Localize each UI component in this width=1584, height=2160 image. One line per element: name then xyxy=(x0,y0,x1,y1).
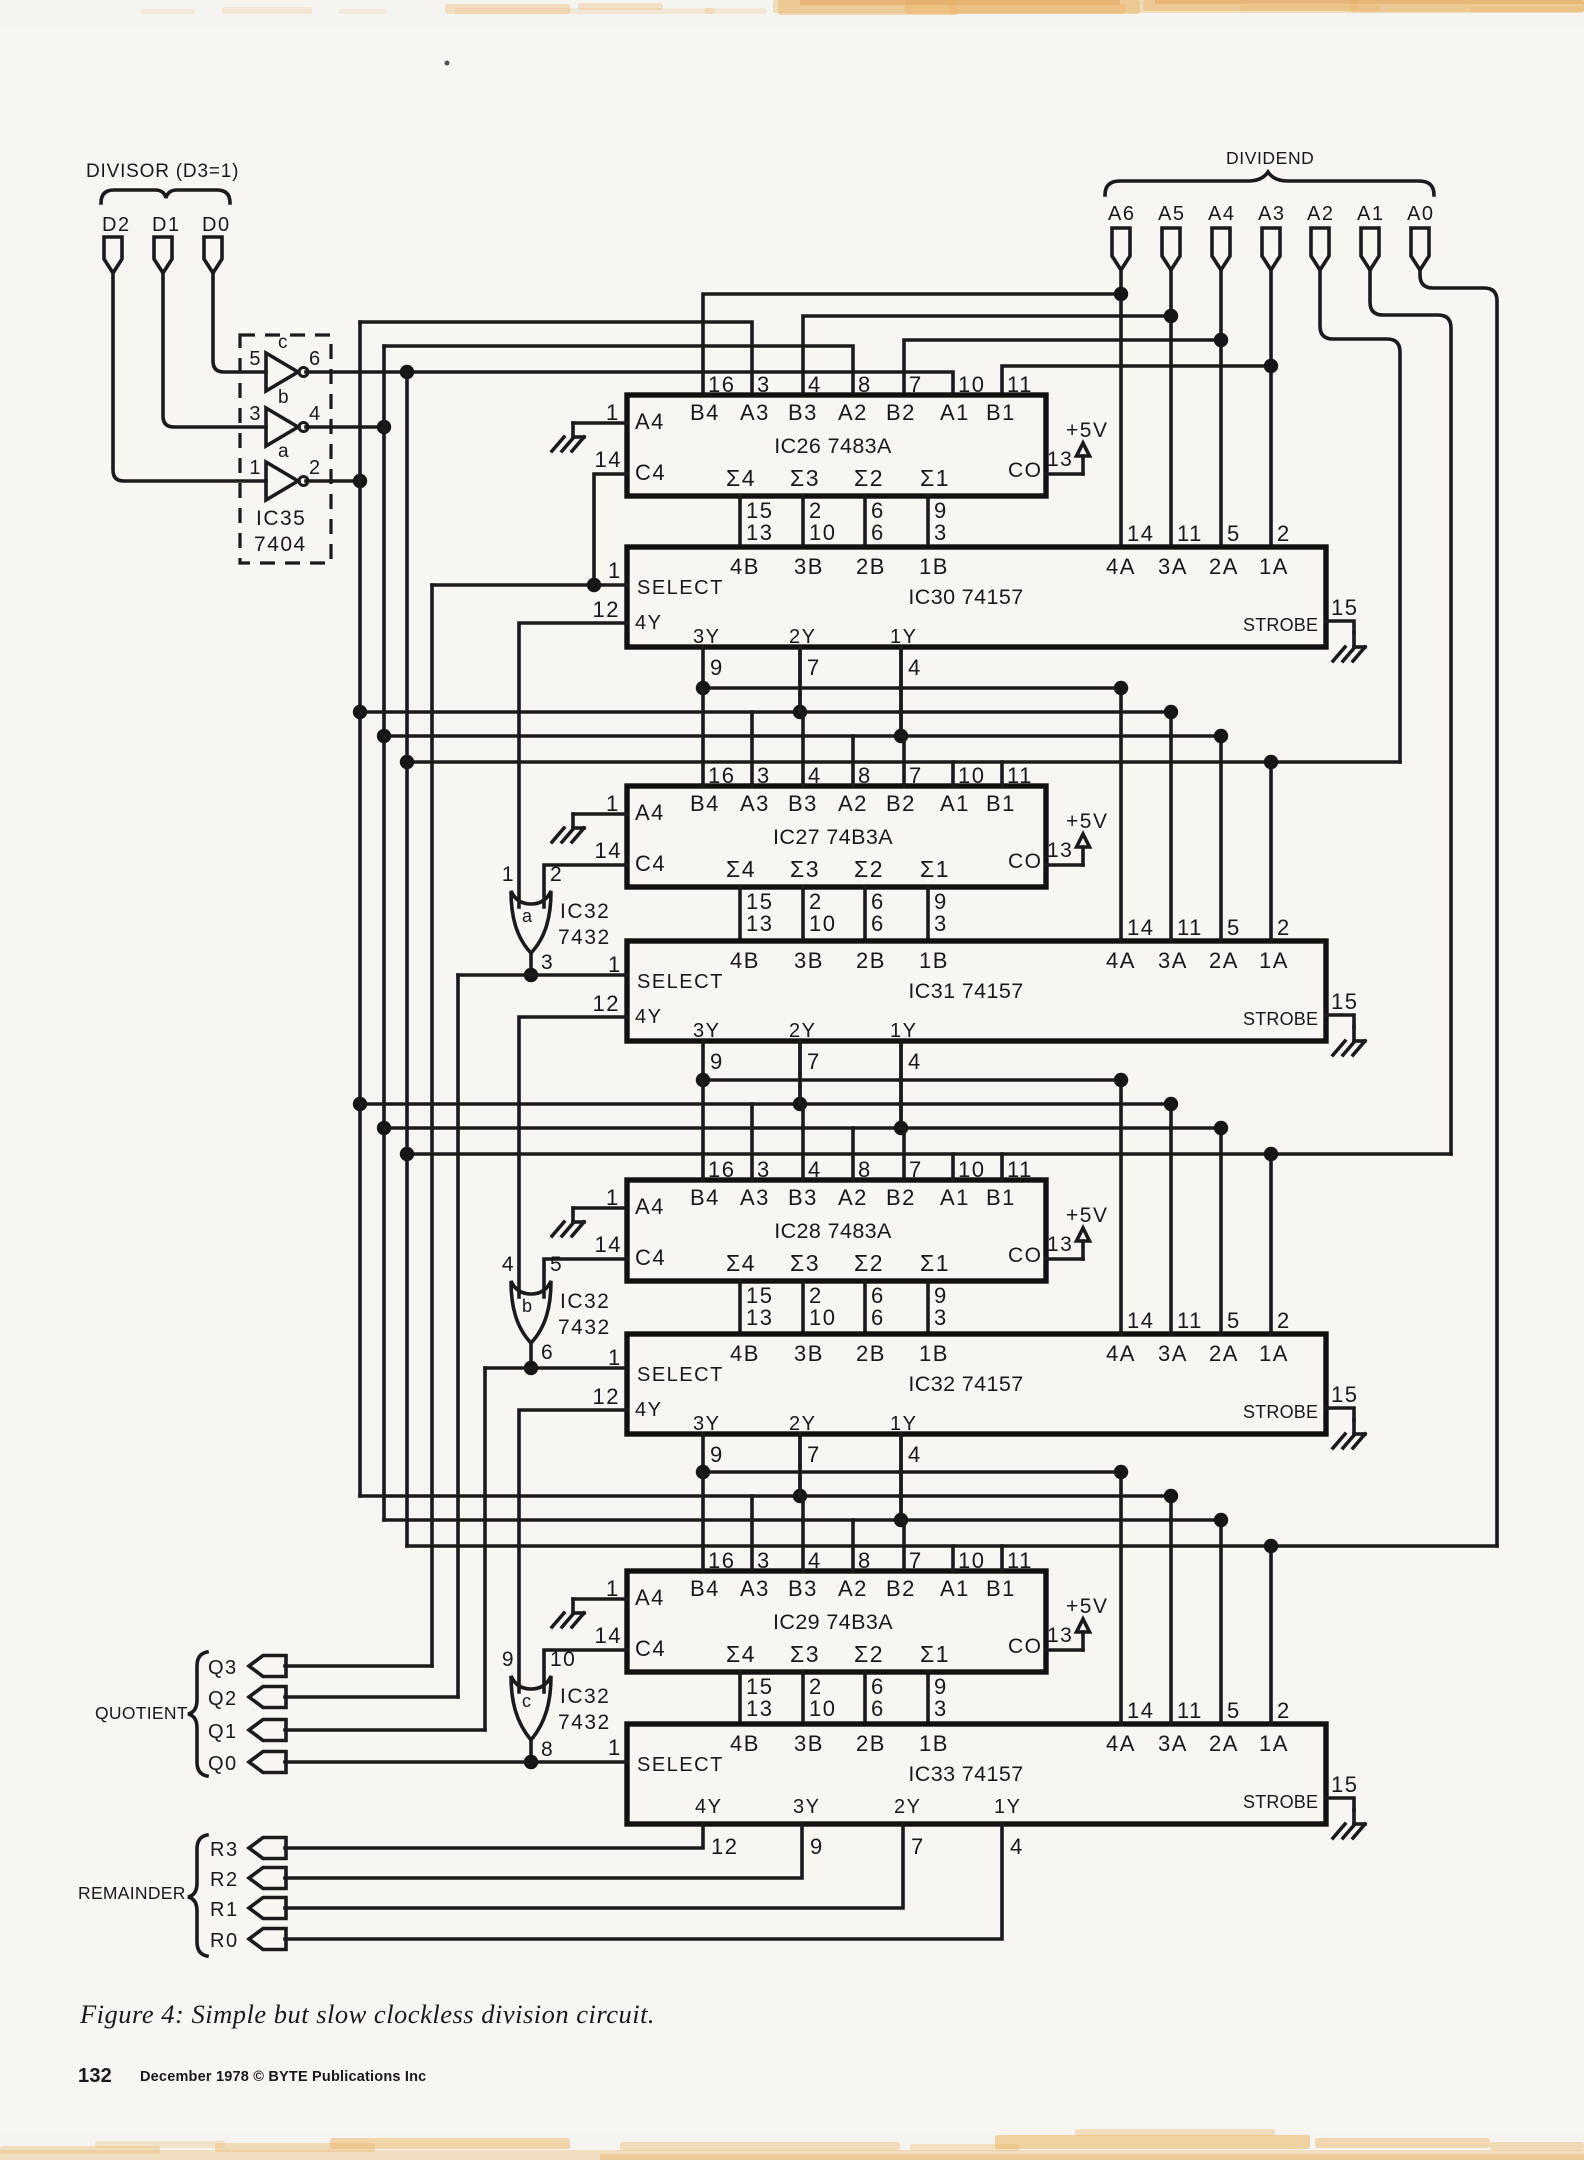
wire column to IC33 3A xyxy=(1169,1496,1173,1724)
svg-text:5: 5 xyxy=(1227,1698,1241,1723)
junction OR b output / select wire xyxy=(524,1361,538,1375)
wire stage3 adder pin 10 riser xyxy=(951,1154,955,1180)
junction 2Y xyxy=(793,1097,807,1111)
svg-text:Σ4: Σ4 xyxy=(726,465,756,491)
svg-text:1: 1 xyxy=(502,863,515,886)
svg-text:B4: B4 xyxy=(690,1576,720,1601)
svg-text:DIVISOR (D3=1): DIVISOR (D3=1) xyxy=(86,161,239,182)
junction 3A column xyxy=(1164,1489,1178,1503)
wire divisor bus D1n / stage3 1Y to stage4 A2 B2 2A xyxy=(384,1518,1221,1522)
svg-text:Σ2: Σ2 xyxy=(854,1250,884,1276)
inverter IC35c xyxy=(249,332,321,391)
svg-text:2Y: 2Y xyxy=(789,1020,816,1042)
svg-text:1A: 1A xyxy=(1259,1341,1289,1366)
svg-text:1Y: 1Y xyxy=(890,626,917,648)
junction 3Y xyxy=(696,1465,710,1479)
wire column to IC31 4A xyxy=(1119,688,1123,941)
wire stage4 adder pin 10 riser xyxy=(951,1546,955,1571)
wire column to IC31 1A xyxy=(1269,762,1273,941)
wire column to IC33 2A xyxy=(1219,1520,1223,1724)
junction OR a output / select wire xyxy=(524,968,538,982)
svg-text:D1: D1 xyxy=(152,214,181,236)
junction inverter a output / bus D2n xyxy=(353,474,367,488)
svg-text:3A: 3A xyxy=(1158,948,1188,973)
svg-text:9: 9 xyxy=(710,1442,724,1467)
wire IC29 C4 to OR gate xyxy=(544,1650,627,1692)
wire IC31 select to quotient Q2 bus xyxy=(458,973,627,977)
junction IC26 C4 / select xyxy=(587,578,601,592)
svg-text:B3: B3 xyxy=(788,1576,818,1601)
multiplexer IC33 74157 xyxy=(627,1724,1326,1824)
svg-text:Q1: Q1 xyxy=(208,1721,238,1743)
svg-text:A4: A4 xyxy=(635,409,665,434)
svg-text:7: 7 xyxy=(911,1834,925,1859)
svg-text:7404: 7404 xyxy=(254,533,307,556)
svg-text:10: 10 xyxy=(809,1696,836,1721)
wire stage2 adder pin 3 riser xyxy=(750,712,754,786)
input connector A6 xyxy=(1108,203,1135,270)
junction at A5 column xyxy=(1164,309,1178,323)
page-edge stain bottom xyxy=(0,2129,1584,2160)
svg-text:4A: 4A xyxy=(1106,1341,1136,1366)
svg-text:R0: R0 xyxy=(210,1930,239,1952)
paper speck xyxy=(445,61,450,66)
svg-text:A2: A2 xyxy=(838,791,868,816)
junction bus D2n xyxy=(353,705,367,719)
svg-text:4: 4 xyxy=(908,1442,922,1467)
svg-text:SELECT: SELECT xyxy=(637,971,724,993)
wire A3 column to IC30 1A xyxy=(1269,270,1273,547)
svg-text:132: 132 xyxy=(78,2065,112,2087)
svg-text:4A: 4A xyxy=(1106,1731,1136,1756)
svg-text:2: 2 xyxy=(1277,1308,1291,1333)
svg-text:2A: 2A xyxy=(1209,1341,1239,1366)
mux A-input pin numbers IC30 xyxy=(1127,521,1291,546)
inverter IC35b xyxy=(249,387,321,446)
junction bus D0n xyxy=(400,1147,414,1161)
junction 4A column xyxy=(1114,1073,1128,1087)
adder IC27 74B3A xyxy=(627,786,1046,887)
svg-text:B1: B1 xyxy=(986,400,1016,425)
svg-text:B4: B4 xyxy=(690,1185,720,1210)
input connector A2 xyxy=(1307,203,1334,270)
wire IC26 pin 11 to dividend A3 xyxy=(1002,366,1271,395)
svg-text:2: 2 xyxy=(1277,521,1291,546)
svg-text:Σ4: Σ4 xyxy=(726,1641,756,1667)
wire stage3 3Y to stage4 B4 and 4A xyxy=(703,1470,1121,1474)
svg-text:3: 3 xyxy=(757,763,771,788)
wire A2 jog to right-side bus xyxy=(1320,270,1400,762)
junction 4A column xyxy=(1114,1465,1128,1479)
svg-text:IC33 74157: IC33 74157 xyxy=(908,1762,1023,1786)
svg-text:5: 5 xyxy=(1227,915,1241,940)
svg-text:11: 11 xyxy=(1177,1308,1203,1333)
svg-text:December 1978 © BYTE Publicati: December 1978 © BYTE Publications Inc xyxy=(140,2069,426,2085)
svg-text:7: 7 xyxy=(807,1442,821,1467)
svg-text:SELECT: SELECT xyxy=(637,577,724,599)
wire IC30 3Y output xyxy=(703,647,724,688)
wire A4 column to IC30 2A xyxy=(1219,270,1223,547)
svg-text:SELECT: SELECT xyxy=(637,1364,724,1386)
wire IC33 1Y to remainder R0 xyxy=(285,1824,1024,1939)
ground at IC26 pin 1 A4 xyxy=(552,400,627,451)
output connector Q0 xyxy=(208,1752,286,1776)
svg-text:3: 3 xyxy=(757,372,771,397)
svg-text:15: 15 xyxy=(1331,1772,1358,1797)
svg-text:11: 11 xyxy=(1177,915,1203,940)
wire A5 column to IC30 3A xyxy=(1169,270,1173,547)
svg-text:14: 14 xyxy=(1127,1698,1154,1723)
svg-text:4: 4 xyxy=(808,372,822,397)
wire IC32 1Y output xyxy=(901,1434,922,1520)
svg-text:B1: B1 xyxy=(986,791,1016,816)
wire stage3 2Y riser tail xyxy=(798,1434,802,1496)
svg-text:2B: 2B xyxy=(856,1341,886,1366)
dividend brace xyxy=(1105,172,1434,195)
svg-text:14: 14 xyxy=(595,1623,622,1648)
wire stage4 adder pin 7 riser xyxy=(902,1520,906,1571)
svg-text:A1: A1 xyxy=(940,1185,970,1210)
wire stage2 2Y riser tail xyxy=(798,1041,802,1104)
wire IC30 2Y output xyxy=(800,647,821,712)
svg-text:2A: 2A xyxy=(1209,1731,1239,1756)
svg-text:12: 12 xyxy=(711,1834,738,1859)
svg-text:7: 7 xyxy=(909,763,923,788)
junction 3Y xyxy=(696,1073,710,1087)
svg-text:c: c xyxy=(278,332,289,353)
adder pin numbers above IC29 xyxy=(708,1548,1033,1573)
wire IC30 select node to quotient Q3 bus xyxy=(432,583,627,587)
svg-text:1A: 1A xyxy=(1259,1731,1289,1756)
svg-text:13: 13 xyxy=(746,1305,773,1330)
svg-text:A2: A2 xyxy=(838,1576,868,1601)
svg-text:REMAINDER: REMAINDER xyxy=(78,1883,186,1903)
wire inverter a output to bus D2n xyxy=(306,479,360,483)
svg-text:9: 9 xyxy=(810,1834,824,1859)
svg-text:3Y: 3Y xyxy=(793,1796,820,1818)
svg-text:11: 11 xyxy=(1177,521,1203,546)
svg-text:A3: A3 xyxy=(740,791,770,816)
svg-text:B4: B4 xyxy=(690,400,720,425)
adder IC29 74B3A xyxy=(627,1571,1046,1672)
wire IC31 3Y output xyxy=(703,1041,724,1080)
wire column to IC32 4A xyxy=(1119,1080,1123,1334)
svg-text:6: 6 xyxy=(309,348,322,370)
wire column to IC32 3A xyxy=(1169,1104,1173,1334)
svg-text:A3: A3 xyxy=(740,1576,770,1601)
wire IC29 &#931;3 to mux 3B xyxy=(803,1672,836,1724)
wire stage2 adder pin 8 riser xyxy=(851,736,855,786)
svg-text:4Y: 4Y xyxy=(635,612,662,634)
svg-text:Σ2: Σ2 xyxy=(854,465,884,491)
wire IC27 &#931;2 to mux 2B xyxy=(865,887,885,941)
wire IC26 &#931;4 to mux 4B xyxy=(740,496,773,547)
svg-text:Q2: Q2 xyxy=(208,1688,238,1710)
svg-text:5: 5 xyxy=(1227,1308,1241,1333)
svg-text:16: 16 xyxy=(708,372,735,397)
power +5V at IC27 CO pin 13 xyxy=(1046,810,1108,865)
svg-text:4Y: 4Y xyxy=(635,1006,662,1028)
svg-text:4: 4 xyxy=(502,1253,515,1276)
svg-text:b: b xyxy=(522,1296,534,1316)
svg-text:16: 16 xyxy=(708,1157,735,1182)
svg-text:Σ2: Σ2 xyxy=(854,856,884,882)
svg-text:IC32: IC32 xyxy=(560,1685,610,1708)
svg-text:15: 15 xyxy=(1331,1382,1358,1407)
svg-text:7432: 7432 xyxy=(558,1316,611,1339)
wire Q3 to select bus xyxy=(285,1664,432,1668)
svg-text:B3: B3 xyxy=(788,791,818,816)
svg-text:13: 13 xyxy=(1047,839,1073,862)
wire column to IC31 3A xyxy=(1169,712,1173,941)
svg-text:IC26 7483A: IC26 7483A xyxy=(774,434,892,458)
svg-text:A3: A3 xyxy=(1258,203,1285,225)
quotient bus Q1 vertical xyxy=(483,1368,487,1730)
wire stage1 2Y riser tail xyxy=(798,647,802,712)
junction 1Y xyxy=(894,1121,908,1135)
input connector A3 xyxy=(1258,203,1285,270)
wire stage4 adder pin 11 riser xyxy=(1000,1546,1004,1571)
wire IC27 &#931;1 to mux 1B xyxy=(928,887,948,941)
svg-text:3: 3 xyxy=(934,911,948,936)
junction bus D1n xyxy=(377,1121,391,1135)
wire stage3 adder pin 3 riser xyxy=(750,1104,754,1180)
wire stage1 1Y riser tail xyxy=(899,647,903,736)
wire A1 jog to right-side bus xyxy=(1370,270,1451,1154)
wire IC29 &#931;2 to mux 2B xyxy=(865,1672,885,1724)
svg-text:5: 5 xyxy=(249,348,262,370)
wire divisor bus D2n / stage1 2Y to stage2 A3 B3 3A xyxy=(360,710,1171,714)
wire stage1 3Y to stage2 B4 and 4A xyxy=(703,686,1121,690)
svg-text:1: 1 xyxy=(249,457,262,479)
input connector A4 xyxy=(1208,203,1235,270)
svg-text:13: 13 xyxy=(1047,1624,1073,1647)
svg-text:B2: B2 xyxy=(886,1576,916,1601)
svg-text:11: 11 xyxy=(1177,1698,1203,1723)
svg-text:10: 10 xyxy=(809,520,836,545)
svg-text:4Y: 4Y xyxy=(695,1796,722,1818)
svg-text:3: 3 xyxy=(934,1305,948,1330)
junction 1A column xyxy=(1264,1147,1278,1161)
svg-text:4A: 4A xyxy=(1106,554,1136,579)
wire column to IC32 1A xyxy=(1269,1154,1273,1334)
inverter IC35a xyxy=(249,441,321,500)
wire IC33 3Y to remainder R2 xyxy=(285,1824,824,1878)
svg-text:IC32 74157: IC32 74157 xyxy=(908,1372,1023,1396)
svg-text:10: 10 xyxy=(958,1157,985,1182)
svg-text:6: 6 xyxy=(541,1341,554,1364)
svg-text:4: 4 xyxy=(808,1157,822,1182)
junction bus D1n xyxy=(377,729,391,743)
svg-text:Σ1: Σ1 xyxy=(920,1250,950,1276)
svg-text:7: 7 xyxy=(807,655,821,680)
svg-text:6: 6 xyxy=(871,1696,885,1721)
output connector R0 xyxy=(210,1929,286,1953)
wire IC32 3Y output xyxy=(703,1434,724,1472)
svg-text:1Y: 1Y xyxy=(890,1413,917,1435)
svg-text:STROBE: STROBE xyxy=(1243,1792,1318,1812)
svg-text:6: 6 xyxy=(871,911,885,936)
junction 2Y xyxy=(793,1489,807,1503)
wire OR c output to select stage4 xyxy=(529,1740,533,1762)
svg-text:Σ1: Σ1 xyxy=(920,1641,950,1667)
wire IC29 &#931;1 to mux 1B xyxy=(928,1672,948,1724)
svg-text:4: 4 xyxy=(908,1049,922,1074)
or-gate IC32a xyxy=(502,863,611,974)
wire OR b output to select stage3 xyxy=(529,1343,533,1368)
wire IC26 &#931;3 to mux 3B xyxy=(803,496,836,547)
wire IC28 &#931;1 to mux 1B xyxy=(928,1281,948,1334)
svg-text:10: 10 xyxy=(550,1648,576,1671)
adder pin numbers above IC26 xyxy=(708,372,1033,397)
wire IC32 select to quotient Q1 bus xyxy=(485,1366,627,1370)
svg-text:C4: C4 xyxy=(635,1636,666,1661)
svg-text:3: 3 xyxy=(249,403,262,425)
svg-text:12: 12 xyxy=(593,597,620,622)
svg-text:1A: 1A xyxy=(1259,948,1289,973)
svg-text:13: 13 xyxy=(746,1696,773,1721)
strobe ground at IC31 pin 15 xyxy=(1326,989,1365,1055)
svg-text:A4: A4 xyxy=(635,1585,665,1610)
svg-text:A1: A1 xyxy=(940,791,970,816)
wire stage2 1Y riser tail xyxy=(899,1041,903,1128)
svg-text:8: 8 xyxy=(858,1157,872,1182)
svg-text:10: 10 xyxy=(809,1305,836,1330)
multiplexer IC30 74157 xyxy=(627,547,1326,648)
svg-text:a: a xyxy=(278,441,290,462)
adder IC26 7483A xyxy=(627,395,1046,496)
svg-text:a: a xyxy=(522,906,534,926)
mux A-input pin numbers IC32 xyxy=(1127,1308,1291,1333)
quotient brace xyxy=(188,1652,207,1776)
svg-text:10: 10 xyxy=(958,372,985,397)
power +5V at IC28 CO pin 13 xyxy=(1046,1204,1108,1259)
power +5V at IC26 CO pin 13 xyxy=(1046,419,1108,474)
svg-text:B3: B3 xyxy=(788,400,818,425)
page-edge stain top xyxy=(140,0,1584,15)
svg-text:Σ1: Σ1 xyxy=(920,465,950,491)
bus D2n vertical xyxy=(358,322,362,1496)
svg-text:A0: A0 xyxy=(1407,203,1434,225)
svg-text:14: 14 xyxy=(595,447,622,472)
svg-text:A3: A3 xyxy=(740,1185,770,1210)
svg-text:2B: 2B xyxy=(856,948,886,973)
label IC35 7404 xyxy=(254,507,307,556)
ground at IC27 pin 1 A4 xyxy=(552,791,627,842)
svg-text:4: 4 xyxy=(908,655,922,680)
svg-text:8: 8 xyxy=(858,372,872,397)
svg-text:4B: 4B xyxy=(730,948,760,973)
svg-text:4B: 4B xyxy=(730,554,760,579)
svg-text:+5V: +5V xyxy=(1066,419,1108,442)
wire IC27 &#931;4 to mux 4B xyxy=(740,887,773,941)
svg-text:12: 12 xyxy=(593,1384,620,1409)
wire divisor bus D0n / dividend bit to stage3 A1 B1 1A xyxy=(407,1152,1451,1156)
svg-text:8: 8 xyxy=(858,763,872,788)
svg-text:IC30 74157: IC30 74157 xyxy=(908,585,1023,609)
junction 3A column xyxy=(1164,705,1178,719)
svg-text:CO: CO xyxy=(1008,1635,1043,1658)
wire stage4 adder pin 16 riser xyxy=(701,1472,705,1571)
mux A-input pin numbers IC31 xyxy=(1127,915,1291,940)
svg-text:Q0: Q0 xyxy=(208,1753,238,1775)
svg-text:A4: A4 xyxy=(635,1194,665,1219)
svg-text:B1: B1 xyxy=(986,1576,1016,1601)
svg-text:A1: A1 xyxy=(940,1576,970,1601)
svg-text:1: 1 xyxy=(608,1735,622,1760)
svg-text:Σ3: Σ3 xyxy=(790,1641,820,1667)
svg-text:1B: 1B xyxy=(919,1731,949,1756)
svg-text:13: 13 xyxy=(1047,1233,1073,1256)
wire stage1 4Y to OR gate a input xyxy=(519,623,627,907)
svg-text:C4: C4 xyxy=(635,460,666,485)
svg-text:3: 3 xyxy=(757,1548,771,1573)
svg-text:B4: B4 xyxy=(690,791,720,816)
strobe ground at IC33 pin 15 xyxy=(1326,1772,1365,1838)
svg-text:R2: R2 xyxy=(210,1869,239,1891)
or-gate IC32b xyxy=(502,1253,611,1364)
wire IC33 select to quotient Q0 output xyxy=(285,1760,627,1764)
wire IC27 &#931;3 to mux 3B xyxy=(803,887,836,941)
svg-text:STROBE: STROBE xyxy=(1243,615,1318,635)
svg-text:CO: CO xyxy=(1008,459,1043,482)
wire stage2 3Y to stage3 B4 and 4A xyxy=(703,1078,1121,1082)
svg-text:c: c xyxy=(522,1691,533,1711)
input connector A5 xyxy=(1158,203,1185,270)
svg-text:14: 14 xyxy=(595,838,622,863)
svg-text:10: 10 xyxy=(958,1548,985,1573)
wire column to IC31 2A xyxy=(1219,736,1223,941)
svg-text:14: 14 xyxy=(1127,1308,1154,1333)
junction 2A column xyxy=(1214,1513,1228,1527)
svg-text:2A: 2A xyxy=(1209,554,1239,579)
svg-text:6: 6 xyxy=(871,1305,885,1330)
svg-text:2: 2 xyxy=(309,457,322,479)
svg-text:SELECT: SELECT xyxy=(637,1754,724,1776)
svg-text:13: 13 xyxy=(746,520,773,545)
svg-text:4: 4 xyxy=(808,763,822,788)
wire IC28 &#931;4 to mux 4B xyxy=(740,1281,773,1334)
svg-text:D2: D2 xyxy=(102,214,131,236)
svg-text:11: 11 xyxy=(1007,372,1033,397)
svg-text:IC32: IC32 xyxy=(560,1290,610,1313)
wire stage4 adder pin 4 riser xyxy=(801,1496,805,1571)
junction 2A column xyxy=(1214,1121,1228,1135)
svg-text:3: 3 xyxy=(934,520,948,545)
quotient bus Q3 vertical xyxy=(430,585,434,1666)
wire column to IC33 4A xyxy=(1119,1472,1123,1724)
ground at IC29 pin 1 A4 xyxy=(552,1576,627,1627)
svg-text:Σ3: Σ3 xyxy=(790,1250,820,1276)
wire stage4 adder pin 3 riser xyxy=(750,1496,754,1571)
wire IC26 pin 16 to dividend A6 xyxy=(703,294,1121,395)
input connector D2 xyxy=(102,214,131,273)
svg-text:B2: B2 xyxy=(886,791,916,816)
wire divisor bus D0n / dividend bit to stage4 A1 B1 1A xyxy=(407,1544,1497,1548)
svg-text:3: 3 xyxy=(541,951,554,974)
wire IC29 &#931;4 to mux 4B xyxy=(740,1672,773,1724)
svg-text:4: 4 xyxy=(1010,1834,1024,1859)
output connector R3 xyxy=(210,1838,286,1862)
input connector A0 xyxy=(1407,203,1434,270)
svg-text:9: 9 xyxy=(710,655,724,680)
svg-text:D0: D0 xyxy=(202,214,231,236)
svg-text:7: 7 xyxy=(909,1548,923,1573)
junction 3A column xyxy=(1164,1097,1178,1111)
svg-text:R1: R1 xyxy=(210,1899,239,1921)
svg-text:3B: 3B xyxy=(794,1341,824,1366)
mux A-input pin numbers IC33 xyxy=(1127,1698,1291,1723)
